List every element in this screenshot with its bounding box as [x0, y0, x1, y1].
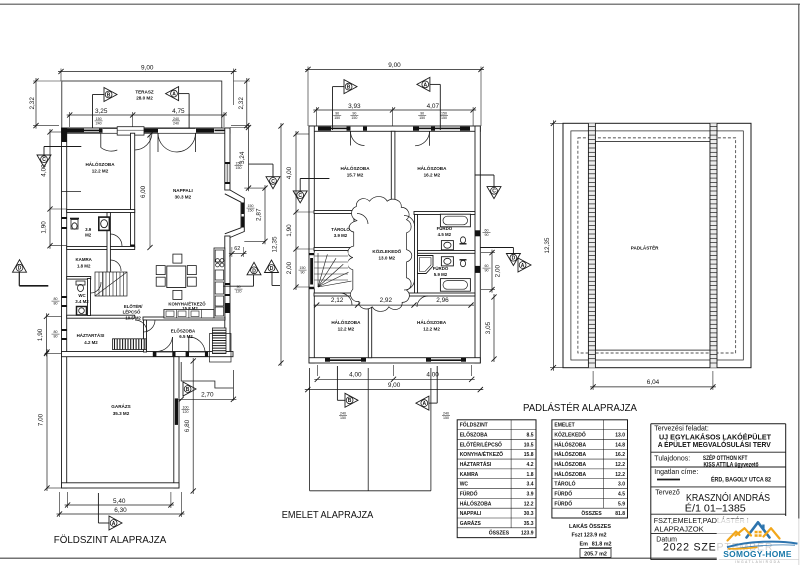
svg-text:2,12: 2,12 — [331, 297, 344, 304]
svg-text:FÜRDŐ: FÜRDŐ — [554, 500, 572, 507]
svg-text:HÁLÓSZOBA: HÁLÓSZOBA — [417, 164, 447, 171]
svg-text:5.9 M2: 5.9 M2 — [434, 272, 448, 277]
svg-text:150: 150 — [443, 416, 449, 420]
svg-text:1.8 M2: 1.8 M2 — [77, 264, 91, 269]
svg-text:ALAPRAJZOK: ALAPRAJZOK — [654, 525, 703, 534]
svg-text:81.8: 81.8 — [615, 511, 625, 517]
svg-text:É/1 01–1385: É/1 01–1385 — [685, 502, 746, 515]
svg-text:3.4: 3.4 — [527, 482, 534, 488]
svg-text:150: 150 — [248, 209, 254, 213]
svg-text:240: 240 — [173, 117, 179, 121]
svg-text:6.5 M2: 6.5 M2 — [179, 334, 193, 339]
svg-text:9,00: 9,00 — [141, 64, 154, 71]
svg-text:8.5: 8.5 — [527, 433, 534, 439]
svg-text:12.2: 12.2 — [615, 472, 625, 478]
svg-text:WC: WC — [460, 482, 469, 488]
svg-text:3,24: 3,24 — [239, 151, 246, 164]
svg-text:150: 150 — [441, 112, 447, 116]
svg-text:TERASZ: TERASZ — [135, 90, 154, 95]
svg-text:90: 90 — [237, 285, 241, 289]
svg-text:150: 150 — [300, 266, 306, 270]
svg-text:A: A — [112, 521, 116, 527]
svg-text:HÁZTARTÁSI: HÁZTARTÁSI — [460, 461, 492, 468]
svg-text:120: 120 — [183, 410, 189, 414]
svg-text:28.0 M2: 28.0 M2 — [136, 96, 153, 101]
svg-text:TÁROLÓ: TÁROLÓ — [554, 480, 575, 488]
svg-text:ELŐTÉR/LÉPCSŐ: ELŐTÉR/LÉPCSŐ — [460, 440, 502, 448]
svg-text:81.8 m2: 81.8 m2 — [592, 542, 612, 548]
svg-text:3.9: 3.9 — [527, 491, 534, 497]
svg-text:HÁLÓSZOBA: HÁLÓSZOBA — [554, 440, 586, 448]
svg-text:150: 150 — [334, 116, 340, 120]
svg-text:2,87: 2,87 — [255, 208, 262, 221]
svg-text:3,93: 3,93 — [348, 103, 361, 110]
svg-text:60: 60 — [485, 229, 489, 233]
svg-text:4.5 M2: 4.5 M2 — [438, 232, 452, 237]
svg-text:GARÁZS: GARÁZS — [460, 520, 482, 527]
svg-text:ÉRD, BAGOLY UTCA 82: ÉRD, BAGOLY UTCA 82 — [711, 475, 771, 484]
svg-text:3.0: 3.0 — [618, 482, 625, 488]
svg-text:7,00: 7,00 — [38, 413, 45, 426]
svg-text:240: 240 — [443, 412, 449, 416]
svg-text:KAMRA: KAMRA — [76, 257, 93, 262]
svg-text:10.5 M2: 10.5 M2 — [125, 315, 141, 320]
svg-text:3.9: 3.9 — [85, 227, 92, 232]
svg-text:15.8: 15.8 — [524, 452, 534, 458]
svg-text:240: 240 — [340, 412, 346, 416]
svg-text:150: 150 — [441, 116, 447, 120]
svg-text:150: 150 — [419, 116, 425, 120]
svg-text:150: 150 — [351, 116, 357, 120]
svg-text:3.9 M2: 3.9 M2 — [334, 233, 348, 238]
svg-text:150: 150 — [248, 204, 254, 208]
svg-text:80: 80 — [54, 302, 58, 306]
svg-text:90: 90 — [420, 112, 424, 116]
svg-text:Tervező: Tervező — [655, 490, 680, 497]
svg-text:15.7 M2: 15.7 M2 — [347, 173, 364, 178]
svg-text:100: 100 — [183, 406, 189, 410]
svg-text:C: C — [271, 179, 275, 185]
svg-text:9,00: 9,00 — [388, 382, 401, 389]
svg-text:EMELET: EMELET — [554, 423, 574, 429]
svg-text:120: 120 — [236, 290, 242, 294]
svg-text:6,04: 6,04 — [647, 379, 660, 386]
svg-text:4.5: 4.5 — [618, 491, 625, 497]
svg-text:B: B — [348, 398, 352, 404]
svg-text:ELŐSZOBA: ELŐSZOBA — [171, 329, 196, 334]
svg-text:HÁLÓSZOBA: HÁLÓSZOBA — [85, 160, 115, 167]
svg-text:NAPPALI: NAPPALI — [460, 511, 482, 517]
svg-text:HÁLÓSZOBA: HÁLÓSZOBA — [340, 164, 370, 171]
svg-text:30.3: 30.3 — [524, 511, 534, 517]
svg-text:D: D — [18, 266, 22, 272]
svg-text:3,05: 3,05 — [485, 321, 492, 334]
svg-text:13.0: 13.0 — [615, 433, 625, 439]
svg-text:PADLÁSTÉR ALAPRAJZA: PADLÁSTÉR ALAPRAJZA — [523, 401, 637, 414]
svg-text:KÖZLEKEDŐ: KÖZLEKEDŐ — [372, 248, 401, 254]
svg-text:123.9: 123.9 — [521, 531, 534, 537]
svg-text:INGATLANIRODA: INGATLANIRODA — [735, 560, 782, 564]
svg-text:A: A — [422, 401, 426, 407]
svg-text:150: 150 — [340, 416, 346, 420]
svg-text:M2: M2 — [85, 233, 92, 238]
svg-text:D: D — [512, 256, 516, 262]
svg-text:150: 150 — [96, 117, 102, 121]
svg-text:90: 90 — [301, 271, 305, 275]
svg-text:240: 240 — [96, 121, 102, 125]
svg-text:C: C — [42, 157, 46, 163]
svg-text:9,00: 9,00 — [388, 62, 401, 69]
svg-text:16.2 M2: 16.2 M2 — [424, 173, 441, 178]
svg-text:D: D — [252, 268, 256, 274]
svg-text:1,90: 1,90 — [41, 221, 48, 234]
svg-text:A: A — [521, 263, 525, 269]
svg-text:4,00: 4,00 — [41, 164, 48, 177]
svg-text:2,00: 2,00 — [495, 264, 502, 277]
svg-text:3,25: 3,25 — [95, 108, 108, 115]
svg-text:4.2 M2: 4.2 M2 — [84, 340, 98, 345]
svg-text:4,07: 4,07 — [427, 103, 440, 110]
svg-text:A ÉPÜLET MEGVALÓSULÁSI TERV: A ÉPÜLET MEGVALÓSULÁSI TERV — [658, 440, 771, 449]
svg-text:FÖLDSZINT: FÖLDSZINT — [460, 422, 488, 429]
svg-text:90: 90 — [485, 269, 489, 273]
svg-text:80: 80 — [54, 330, 58, 334]
svg-text:35.3: 35.3 — [524, 521, 534, 527]
svg-text:LÉPCSŐ: LÉPCSŐ — [123, 310, 141, 315]
svg-text:6,80: 6,80 — [184, 419, 191, 432]
svg-text:205.7 m2: 205.7 m2 — [584, 551, 607, 557]
svg-text:HÁLÓSZOBA: HÁLÓSZOBA — [554, 470, 586, 478]
svg-text:35.3 M2: 35.3 M2 — [113, 411, 130, 416]
svg-text:Em: Em — [580, 542, 589, 548]
svg-text:2,00: 2,00 — [286, 261, 293, 274]
svg-text:Tulajdonos:: Tulajdonos: — [654, 456, 690, 463]
svg-text:1,90: 1,90 — [286, 224, 293, 237]
svg-text:Tervezési feladat:: Tervezési feladat: — [654, 426, 709, 433]
svg-text:150: 150 — [236, 166, 242, 170]
svg-text:NAPPALI: NAPPALI — [173, 188, 193, 193]
svg-text:HÁLÓSZOBA: HÁLÓSZOBA — [460, 499, 492, 507]
svg-text:D: D — [270, 266, 274, 272]
svg-text:ELŐSZOBA: ELŐSZOBA — [460, 432, 488, 439]
svg-text:12.2 M2: 12.2 M2 — [338, 327, 355, 332]
svg-text:WC: WC — [78, 293, 86, 298]
svg-text:GARÁZS: GARÁZS — [111, 403, 130, 409]
svg-text:10.5: 10.5 — [524, 442, 534, 448]
svg-text:62: 62 — [234, 246, 240, 252]
svg-text:ÖSSZES: ÖSSZES — [489, 530, 510, 537]
svg-text:EMELET ALAPRAJZA: EMELET ALAPRAJZA — [282, 509, 374, 521]
svg-text:FÜRDŐ: FÜRDŐ — [460, 490, 478, 497]
svg-text:5,40: 5,40 — [113, 498, 126, 505]
svg-text:B: B — [347, 85, 351, 91]
svg-text:4.2: 4.2 — [527, 462, 534, 468]
svg-text:4,00: 4,00 — [286, 166, 293, 179]
svg-text:HÁLÓSZOBA: HÁLÓSZOBA — [554, 450, 586, 458]
svg-text:12,35: 12,35 — [544, 237, 551, 253]
svg-text:12.2 M2: 12.2 M2 — [423, 327, 440, 332]
svg-text:FÜRDŐ: FÜRDŐ — [433, 266, 449, 271]
svg-text:6,30: 6,30 — [114, 507, 127, 514]
svg-text:90: 90 — [335, 112, 339, 116]
svg-text:TÁROLÓ: TÁROLÓ — [331, 227, 350, 232]
svg-text:KÖZLEKEDŐ: KÖZLEKEDŐ — [554, 432, 586, 439]
svg-text:6,00: 6,00 — [140, 185, 147, 198]
svg-text:FÜRDŐ: FÜRDŐ — [554, 490, 572, 497]
svg-text:KRASZNÓI ANDRÁS: KRASZNÓI ANDRÁS — [686, 491, 770, 504]
svg-text:12,35: 12,35 — [272, 236, 279, 252]
svg-text:Ingatlan címe:: Ingatlan címe: — [654, 469, 698, 476]
svg-text:16.2: 16.2 — [615, 452, 625, 458]
svg-text:KAMRA: KAMRA — [460, 472, 479, 478]
svg-text:4,00: 4,00 — [349, 371, 362, 378]
svg-text:SOMOGY-HOME: SOMOGY-HOME — [723, 549, 792, 559]
svg-text:A: A — [423, 82, 427, 88]
svg-text:PADLÁSTÉR: PADLÁSTÉR — [631, 244, 659, 251]
svg-text:Fszt 123.9 m2: Fszt 123.9 m2 — [571, 533, 606, 539]
svg-text:5.9: 5.9 — [618, 501, 625, 507]
svg-text:80: 80 — [54, 335, 58, 339]
svg-text:4,75: 4,75 — [172, 108, 185, 115]
svg-text:LAKÁS ÖSSZES: LAKÁS ÖSSZES — [569, 523, 611, 530]
svg-text:ELŐTÉR/: ELŐTÉR/ — [124, 304, 143, 309]
svg-text:ÖSSZES: ÖSSZES — [581, 510, 602, 517]
svg-text:12.2 M2: 12.2 M2 — [92, 169, 109, 174]
svg-text:30.3 M2: 30.3 M2 — [175, 195, 192, 200]
svg-text:SZÉP OTTHON KFT: SZÉP OTTHON KFT — [703, 453, 748, 462]
svg-text:240: 240 — [173, 121, 179, 125]
svg-text:A: A — [172, 92, 176, 98]
svg-text:80: 80 — [54, 297, 58, 301]
svg-text:2,32: 2,32 — [238, 97, 245, 110]
svg-text:FÖLDSZINT ALAPRAJZA: FÖLDSZINT ALAPRAJZA — [54, 534, 167, 546]
svg-text:B: B — [186, 387, 190, 393]
svg-text:KISS ATTILA ügyvezető: KISS ATTILA ügyvezető — [704, 462, 759, 469]
svg-text:HÁZTARTÁSI: HÁZTARTÁSI — [77, 333, 105, 338]
svg-text:14.8: 14.8 — [615, 442, 625, 448]
svg-text:1,90: 1,90 — [37, 328, 44, 341]
svg-text:60: 60 — [485, 264, 489, 268]
svg-text:2,70: 2,70 — [201, 392, 214, 399]
svg-text:3.4 M2: 3.4 M2 — [75, 299, 89, 304]
svg-text:12.2: 12.2 — [524, 501, 534, 507]
svg-text:HÁLÓSZOBA: HÁLÓSZOBA — [331, 318, 361, 325]
svg-text:HÁLÓSZOBA: HÁLÓSZOBA — [417, 318, 447, 325]
svg-text:12.2: 12.2 — [615, 462, 625, 468]
svg-text:B: B — [107, 92, 111, 98]
svg-text:HÁLÓSZOBA: HÁLÓSZOBA — [554, 460, 586, 468]
svg-text:90: 90 — [485, 233, 489, 237]
svg-text:13.0 M2: 13.0 M2 — [378, 256, 395, 261]
svg-text:C: C — [492, 189, 496, 195]
svg-text:1.8: 1.8 — [527, 472, 534, 478]
svg-text:2,96: 2,96 — [436, 297, 449, 304]
svg-text:90: 90 — [352, 112, 356, 116]
svg-text:2,32: 2,32 — [29, 97, 36, 110]
svg-text:2,92: 2,92 — [380, 297, 393, 304]
svg-text:KONYHA/ÉTKEZŐ: KONYHA/ÉTKEZŐ — [460, 450, 503, 458]
svg-text:C: C — [298, 193, 302, 199]
